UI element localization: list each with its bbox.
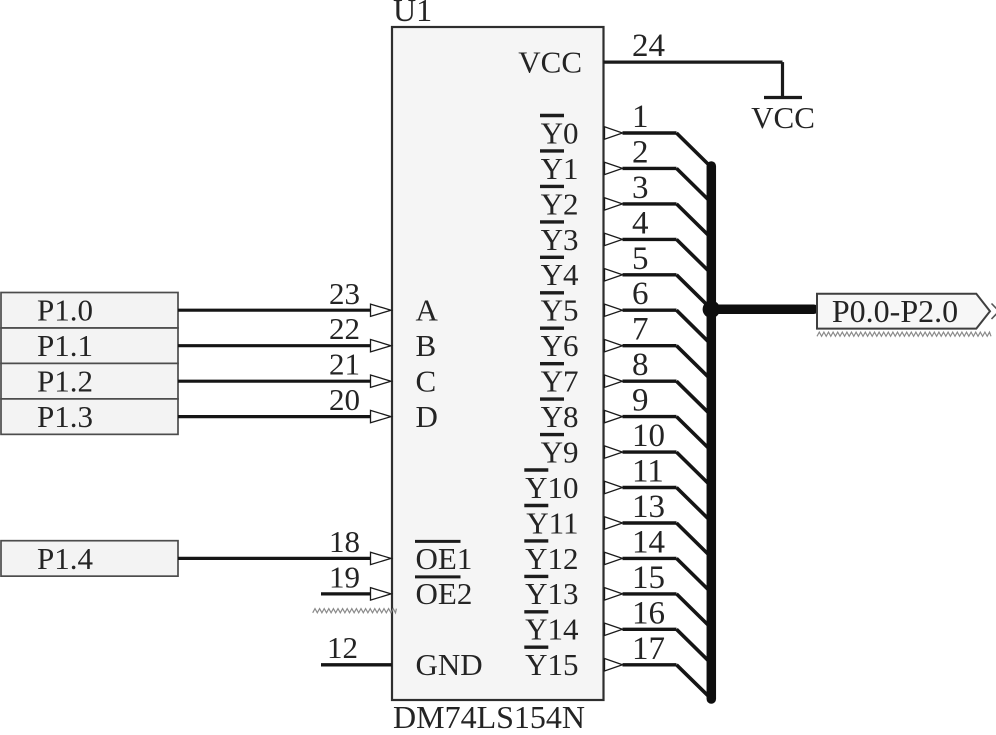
pin name OE1 (active low) (415, 541, 472, 576)
svg-text:U1: U1 (393, 0, 432, 28)
pin 3 (Y2) triangle (605, 198, 623, 210)
pin name Y4 (540, 257, 579, 292)
svg-text:P1.0: P1.0 (37, 293, 93, 328)
svg-text:13: 13 (632, 489, 665, 525)
pin name Y5 (540, 293, 579, 328)
pin 23 triangle (371, 304, 392, 316)
wire pin 13 (623, 521, 677, 524)
wire diagonal pin 1 to bus (677, 133, 709, 165)
wire diagonal pin 11 to bus (677, 488, 709, 520)
wire diagonal pin 3 to bus (677, 204, 709, 236)
wire pin 1 (623, 131, 677, 134)
wire diagonal pin 17 to bus (677, 665, 709, 696)
pin name Y10 (524, 470, 578, 505)
wire pin 14 (623, 557, 677, 560)
wire diagonal pin 5 to bus (677, 275, 709, 307)
wire pin 6 (623, 309, 677, 312)
svg-text:3: 3 (632, 170, 649, 206)
pin name Y12 (524, 541, 578, 576)
pin 8 (Y7) triangle (605, 375, 623, 387)
pin name Y2 (540, 186, 579, 221)
svg-text:P0.0-P2.0: P0.0-P2.0 (832, 293, 958, 329)
wire P1.x to pin 20 (178, 415, 371, 418)
svg-text:22: 22 (329, 311, 360, 346)
pin name Y0 (540, 115, 579, 150)
wire pin 10 (623, 450, 677, 453)
svg-text:Y0: Y0 (541, 115, 579, 150)
svg-text:Y12: Y12 (525, 541, 578, 576)
svg-text:1: 1 (632, 99, 649, 135)
pin 4 (Y3) triangle (605, 233, 623, 245)
svg-text:19: 19 (329, 559, 360, 594)
pin name Y6 (540, 328, 579, 363)
svg-text:12: 12 (327, 630, 358, 665)
svg-text:20: 20 (329, 382, 360, 417)
pin 21 triangle (371, 375, 392, 387)
pin 10 (Y9) triangle (605, 446, 623, 458)
junction dot (703, 301, 720, 318)
wire diagonal pin 15 to bus (677, 594, 709, 626)
wire diagonal pin 13 to bus (677, 523, 709, 555)
wire diagonal pin 2 to bus (677, 168, 709, 200)
svg-text:17: 17 (632, 631, 665, 667)
svg-text:Y10: Y10 (525, 470, 578, 505)
wire pin 7 (623, 344, 677, 347)
ERC squiggle under flag (817, 332, 991, 336)
pin 11 (Y10) triangle (605, 481, 623, 493)
wire VCC drop (781, 62, 784, 97)
svg-text:B: B (416, 328, 437, 363)
svg-text:Y11: Y11 (526, 505, 578, 540)
pin 22 triangle (371, 340, 392, 352)
pin 1 (Y0) triangle (605, 127, 623, 139)
pin 18 triangle (371, 552, 392, 564)
power symbol VCC bar (764, 96, 802, 99)
net flag P0.0-P2.0 (817, 294, 990, 329)
wire diagonal pin 8 to bus (677, 381, 709, 413)
svg-text:10: 10 (632, 418, 665, 454)
pin name Y3 (540, 222, 579, 257)
wire pin 24 VCC (604, 60, 783, 63)
svg-text:P1.3: P1.3 (37, 399, 93, 434)
svg-text:Y13: Y13 (525, 576, 578, 611)
wire diagonal pin 9 to bus (677, 417, 709, 449)
pin name Y7 (540, 364, 579, 399)
svg-text:Y9: Y9 (541, 434, 579, 469)
svg-text:15: 15 (632, 560, 665, 596)
bus tap wire to P0.0-P2.0 (711, 305, 814, 315)
pin 20 triangle (371, 410, 392, 422)
pin name Y9 (540, 434, 579, 469)
pin 15 (Y13) triangle (605, 588, 623, 601)
wire pin 17 (623, 663, 677, 666)
wire stub pin 19 (321, 592, 371, 595)
svg-text:DM74LS154N: DM74LS154N (393, 699, 585, 730)
pin 17 (Y15) triangle (605, 659, 623, 672)
wire diagonal pin 10 to bus (677, 452, 709, 484)
ERC squiggle pin 19 (313, 609, 397, 613)
svg-text:23: 23 (329, 276, 360, 311)
pin 7 (Y6) triangle (605, 340, 623, 352)
svg-text:Y7: Y7 (541, 364, 579, 399)
port box P1.2 (1, 363, 178, 398)
svg-text:D: D (416, 399, 438, 434)
svg-text:A: A (416, 293, 439, 328)
wire P1.x to pin 23 (178, 309, 371, 312)
svg-text:OE1: OE1 (416, 541, 473, 576)
svg-text:Y14: Y14 (525, 612, 579, 647)
pin 16 (Y14) triangle (605, 623, 623, 635)
IC U1 DM74LS154N body (392, 27, 604, 700)
svg-text:Y5: Y5 (541, 293, 579, 328)
wire P1.4 to pin 18 (178, 557, 371, 560)
wire stub pin 12 GND (321, 663, 392, 666)
wire P1.x to pin 21 (178, 380, 371, 383)
svg-text:VCC: VCC (751, 100, 815, 135)
svg-text:8: 8 (632, 347, 649, 383)
svg-text:2: 2 (632, 134, 649, 170)
pin 19 triangle (371, 588, 392, 601)
pin name Y15 (524, 647, 578, 682)
pin name Y14 (524, 612, 579, 647)
port box P1.0 (1, 293, 178, 328)
pin name Y13 (524, 576, 578, 611)
pin 13 (Y11) triangle (605, 517, 623, 529)
pin name Y11 (524, 505, 578, 540)
wire diagonal pin 4 to bus (677, 239, 709, 271)
wire pin 4 (623, 238, 677, 241)
svg-text:GND: GND (416, 647, 483, 682)
pin name Y8 (540, 399, 579, 434)
pin 9 (Y8) triangle (605, 410, 623, 422)
svg-text:24: 24 (632, 28, 665, 64)
port box P1.3 (1, 399, 178, 434)
wire diagonal pin 7 to bus (677, 346, 709, 378)
svg-text:16: 16 (632, 595, 665, 631)
bus vertical P0.0-P2.0 (707, 166, 717, 699)
wire pin 2 (623, 167, 677, 170)
arrow tip mark (992, 304, 996, 320)
svg-text:18: 18 (329, 524, 360, 559)
svg-text:P1.4: P1.4 (37, 541, 93, 576)
svg-text:Y4: Y4 (541, 257, 579, 292)
wire pin 11 (623, 486, 677, 489)
svg-text:14: 14 (632, 524, 665, 560)
svg-text:Y15: Y15 (525, 647, 578, 682)
wire pin 5 (623, 273, 677, 276)
pin 6 (Y5) triangle (605, 304, 623, 316)
svg-text:21: 21 (329, 347, 360, 382)
svg-text:7: 7 (632, 312, 649, 348)
wire pin 8 (623, 380, 677, 383)
wire P1.x to pin 22 (178, 344, 371, 347)
pin 2 (Y1) triangle (605, 162, 623, 174)
pin 14 (Y12) triangle (605, 552, 623, 564)
svg-text:11: 11 (632, 454, 664, 490)
pin 5 (Y4) triangle (605, 269, 623, 281)
svg-text:4: 4 (632, 205, 649, 241)
svg-text:5: 5 (632, 241, 649, 277)
svg-text:Y1: Y1 (541, 151, 579, 186)
svg-text:P1.1: P1.1 (37, 328, 93, 363)
pin name Y1 (540, 151, 579, 186)
svg-text:Y3: Y3 (541, 222, 579, 257)
wire diagonal pin 16 to bus (677, 629, 709, 661)
svg-text:Y2: Y2 (541, 186, 579, 221)
wire pin 16 (623, 628, 677, 631)
pin name OE2 (active low) (415, 576, 472, 611)
svg-text:9: 9 (632, 383, 649, 419)
wire pin 15 (623, 592, 677, 595)
wire diagonal pin 14 to bus (677, 558, 709, 590)
svg-text:Y8: Y8 (541, 399, 579, 434)
wire pin 3 (623, 202, 677, 205)
port box P1.4 (1, 541, 178, 576)
svg-text:C: C (416, 364, 437, 399)
port box P1.1 (1, 328, 178, 363)
svg-text:OE2: OE2 (416, 576, 473, 611)
svg-text:P1.2: P1.2 (37, 364, 93, 399)
svg-text:6: 6 (632, 276, 649, 312)
wire pin 9 (623, 415, 677, 418)
wire diagonal pin 6 to bus (677, 310, 709, 342)
svg-text:Y6: Y6 (541, 328, 579, 363)
svg-text:VCC: VCC (518, 45, 582, 80)
